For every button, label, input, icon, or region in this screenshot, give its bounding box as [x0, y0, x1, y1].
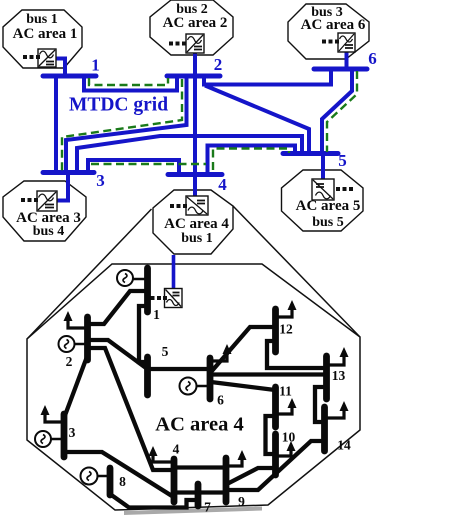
svg-text:5: 5: [162, 344, 169, 359]
svg-text:AC area 4: AC area 4: [155, 414, 243, 436]
svg-text:5: 5: [338, 151, 347, 170]
svg-text:8: 8: [119, 474, 126, 489]
svg-text:3: 3: [96, 171, 105, 190]
svg-text:bus 1: bus 1: [26, 12, 58, 27]
svg-text:MTDC grid: MTDC grid: [69, 95, 168, 116]
svg-text:bus 5: bus 5: [312, 215, 344, 230]
svg-text:6: 6: [217, 393, 224, 408]
svg-text:AC area 5: AC area 5: [296, 198, 361, 214]
svg-text:10: 10: [282, 430, 296, 445]
svg-text:9: 9: [238, 494, 245, 509]
svg-text:AC area 6: AC area 6: [301, 17, 366, 33]
svg-text:AC area 4: AC area 4: [164, 216, 229, 232]
svg-text:1: 1: [153, 307, 160, 322]
svg-text:bus 1: bus 1: [181, 231, 213, 246]
svg-text:2: 2: [214, 55, 223, 74]
svg-text:14: 14: [337, 438, 351, 453]
svg-text:3: 3: [69, 425, 76, 440]
svg-text:13: 13: [332, 368, 346, 383]
svg-text:2: 2: [66, 354, 73, 369]
svg-text:AC area 1: AC area 1: [13, 26, 78, 42]
svg-text:11: 11: [279, 384, 292, 399]
svg-text:7: 7: [204, 500, 211, 515]
svg-text:12: 12: [279, 322, 293, 337]
svg-text:1: 1: [91, 56, 100, 75]
svg-text:4: 4: [173, 442, 180, 457]
svg-text:4: 4: [218, 175, 227, 194]
svg-text:AC area 2: AC area 2: [163, 15, 228, 31]
svg-text:6: 6: [368, 49, 377, 68]
svg-text:bus 4: bus 4: [33, 224, 65, 239]
